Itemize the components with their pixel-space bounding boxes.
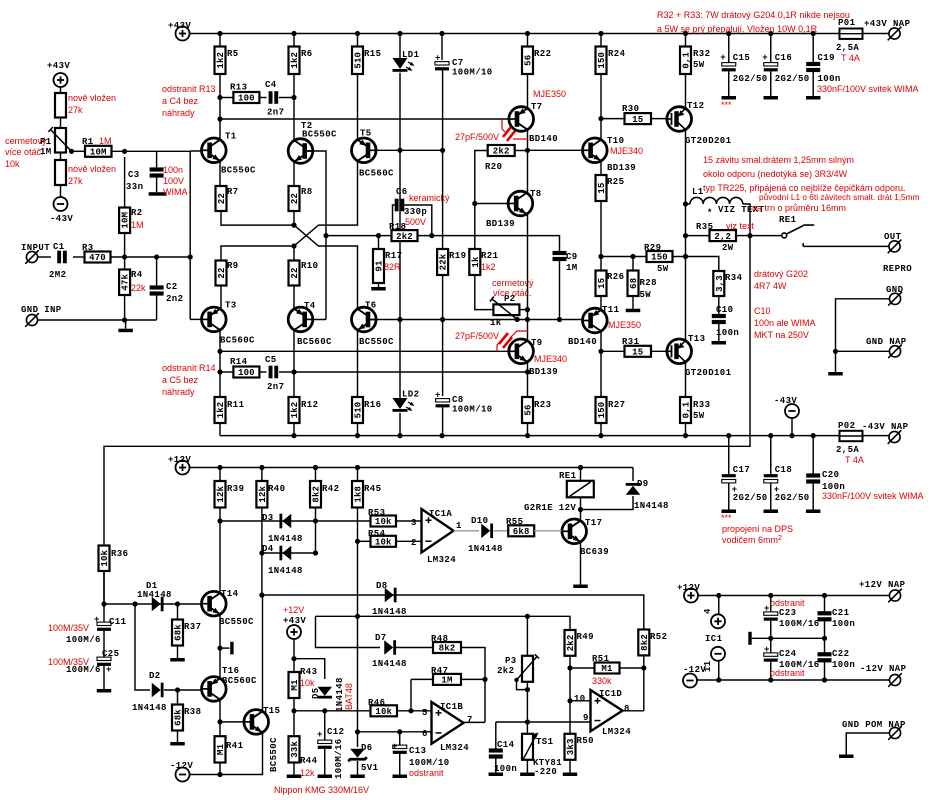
svg-text:BD139: BD139	[486, 219, 515, 229]
resistor R17	[373, 249, 385, 283]
junction P3 line tap	[355, 614, 360, 619]
wire D4 line	[262, 552, 316, 554]
svg-text:C17: C17	[733, 465, 750, 475]
wire C1 to R3	[73, 256, 85, 258]
svg-text:2n2: 2n2	[166, 294, 183, 304]
resistor R33	[680, 397, 692, 423]
svg-text:82R: 82R	[384, 262, 401, 272]
svg-text:0,1: 0,1	[682, 401, 692, 418]
svg-text:10M: 10M	[90, 148, 107, 158]
wire R7 to xline	[221, 211, 294, 225]
svg-text:R48: R48	[431, 634, 448, 644]
capacitor C7	[435, 62, 449, 71]
junction -12V NAP rail	[768, 677, 773, 682]
svg-text:R32: R32	[693, 49, 710, 59]
ground R17	[371, 287, 386, 291]
svg-text:RE1: RE1	[559, 471, 577, 481]
capacitor C22	[818, 652, 832, 662]
svg-text:R42: R42	[322, 484, 339, 494]
svg-text:C21: C21	[832, 608, 850, 618]
wire T8 base line	[475, 203, 508, 205]
wire R55 to T17 base	[534, 530, 561, 532]
svg-text:MJE350: MJE350	[533, 89, 566, 99]
wire D3 line	[220, 520, 316, 522]
power IC1 pin11	[711, 647, 725, 661]
terminal INPUT	[25, 250, 39, 264]
svg-text:více otáč.: více otáč.	[493, 288, 532, 298]
svg-text:R35: R35	[696, 222, 713, 232]
wire +12V rail	[190, 467, 634, 469]
svg-text:odstranit R14: odstranit R14	[162, 363, 216, 373]
junction R51/R52	[641, 665, 646, 670]
svg-text:R13: R13	[230, 83, 247, 93]
svg-text:GND INP: GND INP	[21, 305, 62, 315]
svg-text:-43V: -43V	[774, 396, 797, 406]
wire R17 bottom	[378, 283, 380, 287]
svg-text:WIMA: WIMA	[163, 187, 188, 197]
wire R50 col	[569, 701, 571, 734]
svg-text:5V1: 5V1	[361, 763, 379, 773]
svg-text:MJE350: MJE350	[608, 320, 641, 330]
wire R2 bottom	[124, 233, 126, 257]
diode D8	[385, 588, 397, 603]
wire R8 to xline	[293, 211, 295, 225]
svg-text:330nF/100V svitek WIMA: 330nF/100V svitek WIMA	[822, 491, 924, 501]
wire R13 left	[220, 97, 235, 99]
terminal +43V NAP	[888, 27, 902, 41]
wire R29 left line	[601, 256, 647, 258]
svg-text:3: 3	[411, 518, 417, 528]
svg-text:12k: 12k	[258, 485, 268, 502]
svg-text:R51: R51	[592, 654, 610, 664]
resistor R52	[638, 630, 650, 656]
svg-text:C8: C8	[452, 395, 464, 405]
wire R27 to rail2	[600, 423, 602, 436]
svg-text:+: +	[435, 54, 441, 64]
svg-text:10k: 10k	[375, 517, 392, 527]
svg-text:10: 10	[574, 694, 586, 704]
svg-text:100M/6: 100M/6	[66, 635, 101, 645]
svg-text:R36: R36	[111, 549, 128, 559]
junction R13 tap	[217, 95, 222, 100]
wire R32 to T12	[685, 74, 687, 110]
wire GND to gnd node	[836, 299, 890, 372]
wire R19 bottom	[442, 275, 444, 320]
junction T9 collector col	[525, 317, 530, 322]
wire R12 to rail2	[293, 423, 295, 436]
svg-text:cermetový: cermetový	[5, 136, 47, 146]
wire pin7 out	[464, 721, 486, 723]
terminal -12V NAP	[888, 673, 902, 687]
svg-text:33n: 33n	[126, 182, 143, 192]
svg-text:T13: T13	[688, 334, 705, 344]
junction gnd nap	[833, 349, 838, 354]
resistor R43	[289, 672, 301, 698]
svg-text:2,5A: 2,5A	[836, 445, 859, 455]
svg-text:1M: 1M	[441, 676, 452, 686]
resistor R24	[596, 47, 608, 75]
resistor R16	[352, 397, 364, 423]
wire C2 bottom stem	[156, 295, 158, 321]
wire C19 to gnd	[812, 71, 814, 97]
svg-text:R39: R39	[227, 484, 244, 494]
wire R28 top stem	[632, 257, 634, 271]
wire 27k to -43V	[60, 185, 62, 197]
svg-text:R12: R12	[301, 400, 318, 410]
svg-text:T3: T3	[225, 301, 237, 311]
ground C3	[149, 192, 167, 196]
wire pin11 stem	[718, 661, 720, 680]
svg-text:47k: 47k	[121, 273, 131, 290]
svg-text:M1: M1	[216, 743, 226, 755]
wire R40 down	[261, 508, 263, 596]
svg-text:MJE340: MJE340	[610, 146, 643, 156]
wire C23 bottom	[770, 621, 772, 639]
svg-text:R6: R6	[301, 49, 313, 59]
junction R54 left	[355, 539, 360, 544]
wire L1 right	[743, 204, 750, 236]
junction P3 wiper start	[514, 678, 518, 682]
transistor T7	[509, 107, 534, 132]
svg-text:330nF/100V svitek WIMA: 330nF/100V svitek WIMA	[817, 84, 919, 94]
wire -12V NAP rail	[697, 679, 889, 681]
diode D7	[384, 640, 396, 655]
wire T5 base right	[370, 149, 400, 151]
svg-text:27k: 27k	[68, 176, 83, 186]
resistor R14	[233, 367, 259, 379]
wire T10 emitter to R25	[600, 161, 602, 175]
wire rail to C7	[441, 34, 443, 61]
junction bottom rail	[598, 433, 603, 438]
terminal OUT	[888, 240, 902, 254]
op-amp IC1B	[432, 702, 464, 744]
svg-text:D5: D5	[311, 687, 321, 699]
wire C24 bottom	[770, 662, 772, 680]
svg-text:1k: 1k	[471, 256, 481, 268]
svg-text:2k2: 2k2	[396, 232, 413, 242]
wire C3 stem bottom	[156, 178, 158, 193]
svg-text:2M2: 2M2	[49, 270, 66, 280]
power -12V right	[683, 674, 697, 688]
resistor R10	[289, 261, 301, 286]
wire T15 emitter down	[190, 733, 263, 775]
svg-text:C3: C3	[128, 170, 140, 180]
svg-text:D6: D6	[361, 743, 373, 753]
svg-text:D2: D2	[149, 671, 161, 681]
diode D10	[481, 524, 493, 539]
wire R54 to pin2	[396, 540, 422, 542]
svg-text:C16: C16	[775, 53, 792, 63]
svg-text:1N4148: 1N4148	[372, 659, 407, 669]
wire P2 right	[520, 309, 527, 311]
svg-text:3,3: 3,3	[715, 275, 725, 292]
svg-text:+43V: +43V	[47, 61, 70, 71]
transistor T13	[667, 339, 692, 364]
svg-text:R50: R50	[577, 736, 594, 746]
capacitor C10	[712, 314, 726, 324]
svg-text:D9: D9	[637, 479, 649, 489]
common bar symbol	[748, 632, 751, 645]
wire R33 to rail2	[685, 423, 687, 436]
resistor R28	[628, 271, 640, 297]
resistor R3	[85, 252, 111, 264]
wire R17 top	[378, 236, 380, 249]
ground C13	[393, 775, 408, 779]
ground R50	[563, 773, 578, 777]
junction C4/R6	[291, 95, 296, 100]
svg-text:91: 91	[375, 260, 385, 272]
wire R44 bottom	[293, 763, 295, 775]
wire D10 to R55	[494, 530, 509, 532]
wire to LD2	[399, 320, 401, 399]
wire R15 to T5	[357, 74, 359, 139]
svg-text:R37: R37	[184, 622, 201, 632]
junction T7/T8/R20	[525, 148, 530, 153]
capacitor C11	[97, 622, 111, 631]
svg-text:BC639: BC639	[580, 547, 609, 557]
wire L1 left	[686, 203, 691, 205]
wire IC1A out to D10	[474, 530, 479, 532]
wire T7 collector to T8	[527, 129, 529, 193]
ground gnd pom	[839, 755, 854, 759]
svg-text:5W: 5W	[657, 264, 669, 274]
svg-text:+43V: +43V	[168, 21, 191, 31]
capacitor C8	[436, 399, 450, 408]
svg-text:LD2: LD2	[402, 390, 419, 400]
junction R28 tap	[630, 254, 635, 259]
svg-text:1N4148: 1N4148	[634, 501, 669, 511]
wire R31 line	[601, 350, 625, 352]
svg-text:10k: 10k	[375, 538, 392, 548]
ground R38	[170, 742, 185, 746]
svg-text:R1: R1	[82, 137, 94, 147]
wire D9 bottom to coil	[581, 496, 634, 510]
terminal GND NAP	[888, 345, 902, 359]
ground input	[118, 329, 133, 333]
resistor R48	[433, 642, 461, 654]
svg-text:D4: D4	[262, 544, 274, 554]
svg-text:T11: T11	[602, 305, 620, 315]
svg-text:BD139: BD139	[529, 367, 558, 377]
svg-text:100n: 100n	[832, 619, 855, 629]
wire TS1 bottom	[526, 760, 528, 773]
transistor T9	[509, 339, 534, 364]
wire R53 line	[316, 520, 371, 522]
svg-text:12k: 12k	[300, 768, 315, 778]
svg-text:R23: R23	[534, 400, 551, 410]
power +12V right	[684, 589, 698, 603]
junction pin10 tap	[567, 698, 572, 703]
junction R38 branch	[175, 687, 180, 692]
svg-text:100n: 100n	[818, 74, 841, 84]
relay RE1 coil	[567, 481, 594, 498]
wire gnd stub	[125, 320, 127, 329]
junction P3 wiper	[525, 687, 530, 692]
svg-text:R20: R20	[485, 162, 502, 172]
svg-text:T4: T4	[304, 301, 316, 311]
resistor R55	[508, 525, 534, 537]
wire +43V to R43	[293, 639, 295, 672]
junction bottom rail	[726, 433, 731, 438]
wire base line T6 to T11	[400, 319, 583, 321]
resistor R50	[565, 734, 577, 760]
svg-text:T14: T14	[221, 589, 239, 599]
svg-text:2G2/50: 2G2/50	[733, 74, 768, 84]
svg-text:M1: M1	[601, 664, 613, 674]
ground C15	[722, 96, 737, 100]
svg-text:8k2: 8k2	[439, 644, 456, 654]
transistor T8	[508, 191, 533, 216]
capacitor C3	[150, 167, 164, 177]
svg-text:T7: T7	[531, 102, 543, 112]
wire R30 to T12 base	[651, 118, 668, 120]
op-amp IC1A	[422, 509, 454, 553]
svg-text:8k2: 8k2	[312, 486, 322, 503]
resistor R34	[713, 271, 725, 296]
wire C2 top stem	[156, 257, 158, 286]
svg-text:3k3: 3k3	[566, 738, 576, 755]
wire R37 top	[177, 604, 179, 620]
svg-text:C6: C6	[396, 187, 408, 197]
transistor T16	[202, 677, 227, 702]
ground R37	[170, 658, 185, 662]
svg-text:BC560C: BC560C	[297, 337, 332, 347]
wire C7 to T5 base node	[442, 70, 444, 150]
svg-text:BD140: BD140	[568, 337, 597, 347]
capacitor C23	[764, 612, 778, 621]
wire R41 top	[219, 722, 221, 736]
wire R14 line to T9	[294, 371, 528, 373]
junction bottom rail	[355, 433, 360, 438]
svg-text:C23: C23	[779, 608, 796, 618]
wire C13 bottom	[399, 754, 401, 775]
power -43V at P1	[54, 197, 68, 211]
svg-text:BC560C: BC560C	[359, 169, 394, 179]
junction top rail	[397, 31, 402, 36]
svg-text:1M: 1M	[131, 220, 144, 230]
wire GND NAP line	[836, 350, 890, 352]
wire R19 top	[442, 150, 444, 249]
junction VAS line tap	[217, 116, 222, 121]
wire R25 to R26	[600, 201, 602, 271]
junction bottom rail	[789, 433, 794, 438]
svg-text:1k2: 1k2	[216, 402, 226, 419]
wire R54 line	[358, 540, 371, 542]
wire LD2 to rail2	[399, 413, 401, 436]
svg-text:INPUT: INPUT	[21, 243, 50, 253]
junction pin6 line	[355, 729, 360, 734]
svg-text:-43V NAP: -43V NAP	[862, 422, 909, 432]
svg-text:R9: R9	[227, 261, 239, 271]
transistor T14	[202, 591, 227, 616]
svg-text:+12V: +12V	[168, 455, 191, 465]
svg-text:150: 150	[597, 52, 607, 69]
svg-text:BC550C: BC550C	[219, 617, 254, 627]
wire D5 top hook	[294, 659, 325, 679]
resistor R32	[680, 47, 692, 75]
svg-text:1M: 1M	[99, 136, 112, 146]
svg-text:R38: R38	[184, 707, 201, 717]
wire R13 to C4	[261, 97, 267, 99]
svg-text:odstranit: odstranit	[770, 598, 805, 608]
terminal GND	[888, 292, 902, 306]
resistor R40	[256, 481, 268, 508]
svg-text:Nippon KMG 330M/16V: Nippon KMG 330M/16V	[274, 785, 369, 795]
svg-text:150: 150	[651, 253, 668, 263]
transistor T6	[352, 307, 377, 332]
wire R48 right	[461, 648, 485, 723]
diode D4	[279, 546, 291, 561]
svg-text:8k2: 8k2	[640, 634, 650, 651]
junction R17 tap	[376, 233, 381, 238]
svg-text:27pF/500V: 27pF/500V	[455, 132, 499, 142]
capacitor C13	[393, 745, 407, 754]
junction +12V NAP rail	[716, 593, 721, 598]
wire R10 top	[293, 246, 295, 261]
svg-text:M1: M1	[290, 679, 300, 691]
wire D7 to R48	[396, 647, 433, 649]
ground C12	[318, 775, 333, 779]
svg-text:BC550C: BC550C	[302, 130, 337, 140]
junction T9 emitter/R14 line	[525, 369, 530, 374]
svg-text:R46: R46	[368, 698, 385, 708]
transistor T2	[288, 139, 313, 164]
svg-text:LM324: LM324	[427, 555, 456, 565]
svg-text:***: ***	[721, 513, 732, 523]
potentiometer P1	[48, 127, 71, 152]
svg-text:C11: C11	[109, 617, 127, 627]
wire R5 to T1 collector	[219, 74, 221, 141]
wire R22 to T7	[527, 74, 529, 110]
wire rail to C19	[812, 34, 814, 63]
svg-text:LM324: LM324	[440, 743, 469, 753]
wire T1 base	[190, 150, 201, 152]
resistor R36	[99, 546, 111, 572]
wire R18 to right node	[418, 235, 475, 237]
power +43V at P1	[54, 73, 68, 87]
svg-text:2k2: 2k2	[493, 147, 510, 157]
wire rail to R39	[219, 468, 221, 482]
svg-text:GND NAP: GND NAP	[866, 337, 907, 347]
svg-text:330k: 330k	[592, 676, 612, 686]
junction bottom rail	[397, 433, 402, 438]
wire R1 line	[72, 150, 86, 152]
wire rail to R42	[315, 468, 317, 482]
svg-text:68: 68	[629, 278, 639, 289]
capacitor 27pF/500V red note at T7	[502, 120, 528, 142]
wire R21 col	[474, 204, 476, 250]
svg-text:C10: C10	[716, 305, 733, 315]
capacitor C19	[806, 62, 820, 72]
svg-text:100M/10: 100M/10	[452, 405, 493, 415]
svg-text:C9: C9	[566, 252, 578, 262]
wire rail to R32	[685, 34, 687, 47]
junction bottom rail	[291, 433, 296, 438]
junction C5/R12	[291, 369, 296, 374]
fuse P02	[840, 431, 863, 441]
junction P3 top	[525, 614, 530, 619]
wire C22 bottom	[824, 661, 826, 680]
junction +12V NAP rail	[822, 593, 827, 598]
svg-text:TS1: TS1	[536, 737, 554, 747]
junction T16/T15/R41	[217, 719, 222, 724]
svg-text:R25: R25	[607, 177, 624, 187]
svg-text:C15: C15	[733, 53, 750, 63]
wire T2 emitter to R8	[293, 162, 295, 187]
svg-text:1N4148: 1N4148	[137, 590, 172, 600]
capacitor C4	[269, 91, 279, 104]
svg-text:R19: R19	[449, 251, 466, 261]
